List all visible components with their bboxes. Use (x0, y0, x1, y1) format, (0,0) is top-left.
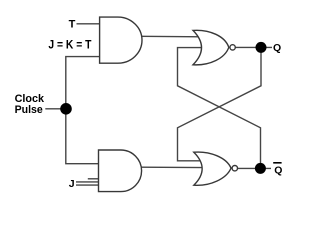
svg-text:Pulse: Pulse (15, 104, 43, 116)
svg-text:Q: Q (274, 165, 282, 177)
svg-text:Q: Q (273, 42, 281, 54)
svg-text:J: J (69, 178, 75, 190)
svg-text:T: T (69, 19, 76, 31)
svg-text:J = K = T: J = K = T (48, 40, 91, 52)
svg-text:Clock: Clock (15, 93, 45, 105)
